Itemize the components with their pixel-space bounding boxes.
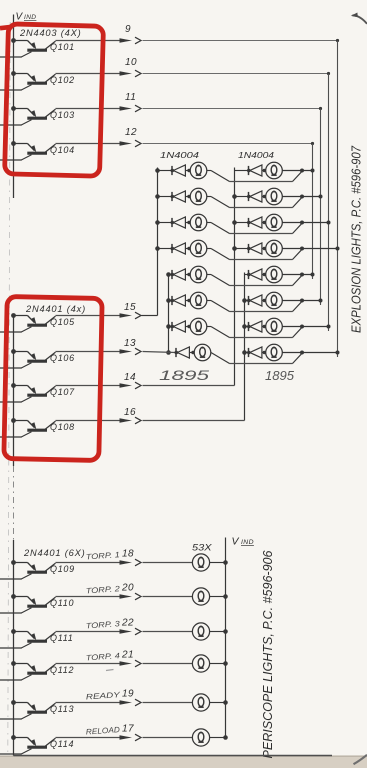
lamp 1895 row 3 right (266, 214, 283, 231)
Q107 base wire (0, 401, 22, 403)
junction node (232, 246, 237, 251)
wire row 6 right (245, 300, 249, 302)
diode 1N4004 row 1 right (247, 165, 262, 176)
junction node (319, 299, 323, 303)
Q104 base wire (0, 159, 22, 161)
svg-text:18: 18 (122, 549, 134, 560)
svg-text:10: 10 (125, 57, 137, 68)
svg-text:Q109: Q109 (50, 564, 75, 574)
junction node (311, 273, 315, 277)
svg-text:16: 16 (124, 407, 136, 418)
lamp 53X TORP. 4 (192, 655, 209, 672)
svg-text:19: 19 (122, 689, 134, 700)
wire row 5 to net vertical (282, 274, 312, 276)
svg-text:53X: 53X (192, 543, 213, 553)
junction node (155, 220, 160, 225)
diode 1N4004 row 4 right (247, 243, 262, 254)
junction node (223, 629, 228, 634)
wire net 9 vertical (337, 41, 339, 358)
lamp 1895 row 7 left (190, 318, 207, 335)
column bus wire (net 15) (157, 168, 159, 316)
Q103 base wire (0, 124, 22, 126)
transistor Q113 (11, 700, 55, 719)
svg-text:1895: 1895 (159, 367, 209, 383)
wire row 1 left (158, 170, 173, 172)
diode 1N4004 row 1 left (171, 165, 186, 176)
svg-text:11: 11 (125, 92, 136, 103)
diode 1N4004 row 5 left (171, 269, 186, 280)
Q112 base wire (0, 679, 22, 681)
svg-text:PERISCOPE LIGHTS, P.C. #596-90: PERISCOPE LIGHTS, P.C. #596-906 (260, 550, 275, 759)
wire lamp to V IND bus (210, 663, 226, 665)
transistor Q107 (11, 383, 55, 402)
junction node (166, 324, 171, 329)
diode 1N4004 row 3 right (247, 217, 262, 228)
wire row 4 right (235, 248, 249, 250)
junction node (223, 700, 228, 705)
junction node (242, 298, 247, 303)
junction node (155, 194, 160, 199)
transistor Q108 (11, 418, 55, 437)
wire row 2 right (235, 196, 249, 198)
column bus wire (net 16) (244, 273, 246, 421)
middle rail wire (13, 314, 15, 466)
wire net 9 to lamp matrix column (143, 40, 338, 42)
wire row 2 left return (207, 197, 302, 208)
junction node (327, 325, 331, 329)
wire row 7 to net vertical (282, 326, 328, 328)
wire net 12 vertical (312, 144, 314, 280)
Q113 base wire (0, 718, 22, 720)
column bus wire (net 13) (168, 273, 170, 353)
svg-text:Q112: Q112 (50, 665, 74, 675)
column bus wire (net 14) (234, 168, 236, 386)
Q101 base wire (0, 56, 22, 58)
junction node (223, 661, 228, 666)
wire lamp to V IND bus (210, 737, 226, 739)
wire net 11 vertical (320, 109, 322, 306)
wire to lamp TORP. 1 (143, 562, 193, 564)
svg-text:12: 12 (125, 127, 137, 138)
lamp 1895 row 5 right (266, 266, 283, 283)
pen stroke bottom right (354, 755, 367, 764)
junction node (166, 272, 171, 277)
Q111 base wire (0, 647, 22, 649)
junction node (300, 195, 304, 199)
wire lamp to V IND bus (210, 562, 226, 564)
wire to lamp TORP. 3 (143, 631, 193, 633)
svg-text:14: 14 (124, 372, 136, 383)
svg-text:Q113: Q113 (50, 704, 74, 714)
lamp 1895 row 6 left (190, 292, 207, 309)
lamp 53X TORP. 3 (192, 623, 209, 640)
lamp 53X TORP. 1 (192, 554, 209, 571)
wire to lamp RELOAD (143, 737, 193, 739)
wire lamp to V IND bus (210, 631, 226, 633)
transistor Q102 (11, 71, 55, 90)
svg-text:Q104: Q104 (50, 145, 75, 155)
pen arrow mark top right (351, 13, 367, 24)
lamp 53X READY (192, 694, 209, 711)
wire row 4 left (158, 248, 173, 250)
diode 1N4004 row 7 right (247, 321, 262, 332)
junction node (166, 298, 171, 303)
junction node (300, 325, 304, 329)
lamp 1895 row 5 left (190, 266, 207, 283)
Q110 base wire (0, 612, 22, 614)
wire to lamp TORP. 4 (143, 663, 193, 665)
junction node (300, 351, 304, 355)
bottom edge wire/border (14, 755, 333, 757)
junction node (300, 273, 304, 277)
lamp 1895 row 8 left (194, 344, 211, 361)
wire row 3 to net vertical (282, 222, 328, 224)
svg-text:20: 20 (121, 583, 134, 594)
junction node (232, 220, 237, 225)
junction node (327, 221, 331, 225)
svg-text:V: V (232, 536, 240, 548)
lamp 53X TORP. 2 (192, 588, 209, 605)
lamp 1895 row 1 left (190, 162, 207, 179)
wire row 6 left return (207, 301, 302, 312)
wire row 1 right (235, 170, 249, 172)
wire lamp to V IND bus (210, 702, 226, 704)
junction node (242, 324, 247, 329)
wire row 4 to net vertical (282, 248, 337, 250)
wire row 7 left return (207, 327, 302, 338)
lamp 1895 row 2 left (190, 188, 207, 205)
page fold line (8, 22, 10, 754)
junction node (336, 247, 340, 251)
svg-text:2N4401 (4x): 2N4401 (4x) (25, 304, 86, 314)
junction node (155, 168, 160, 173)
wire row 2 left (158, 196, 173, 198)
svg-text:2N4401 (6X): 2N4401 (6X) (23, 548, 86, 558)
junction node (336, 351, 340, 355)
svg-text:1N4004: 1N4004 (238, 151, 275, 160)
junction node (311, 169, 315, 173)
wire net 13 continuation (143, 352, 177, 353)
junction node (319, 195, 323, 199)
svg-text:Q111: Q111 (50, 633, 73, 643)
svg-text:13: 13 (124, 338, 136, 349)
lamp 1895 row 8 right (266, 344, 283, 361)
svg-text:Q103: Q103 (50, 110, 75, 120)
svg-text:1N4004: 1N4004 (160, 151, 200, 160)
lamp 1895 row 2 right (266, 188, 283, 205)
diode 1N4004 row 2 left (171, 191, 186, 202)
transistor Q110 (11, 594, 55, 613)
transistor Q112 (11, 661, 55, 680)
transistor Q106 (11, 349, 55, 368)
transistor Q114 (11, 735, 55, 754)
wire row 3 left return (207, 223, 302, 234)
svg-text:IND: IND (241, 539, 254, 546)
bottom rail wire (13, 540, 15, 756)
wire to lamp TORP. 2 (143, 596, 193, 598)
junction node (300, 299, 304, 303)
svg-text:22: 22 (121, 618, 134, 629)
wire net 12 to lamp matrix column (143, 143, 313, 145)
wire lamp to V IND bus (210, 596, 226, 598)
lamp 1895 row 4 right (266, 240, 283, 257)
lamp 1895 row 1 right (266, 162, 283, 179)
svg-text:1895: 1895 (265, 369, 294, 383)
junction node (232, 194, 237, 199)
lamp 1895 row 7 right (266, 318, 283, 335)
wire row 8 left return (211, 353, 302, 364)
diode 1N4004 row 8 right (247, 347, 262, 358)
junction node (155, 246, 160, 251)
junction node (166, 350, 171, 355)
svg-text:Q107: Q107 (50, 387, 75, 397)
diode 1N4004 row 5 right (247, 269, 262, 280)
transistor Q101 (11, 38, 55, 57)
diode 1N4004 row 6 left (171, 295, 186, 306)
annotation red box around Q101-Q104 (0, 27, 12, 28)
wire row 6 to net vertical (282, 300, 320, 302)
diode 1N4004 row 8 left (175, 347, 190, 358)
wire row 7 right (245, 326, 249, 328)
wire row 5 left (169, 274, 173, 276)
wire row 4 left return (207, 249, 302, 260)
junction node (223, 594, 228, 599)
diode 1N4004 row 3 left (171, 217, 186, 228)
lamp 53X RELOAD (192, 729, 209, 746)
svg-text:Q105: Q105 (50, 317, 75, 327)
wire row 5 right (245, 274, 249, 276)
smudge (106, 670, 114, 671)
Q106 base wire (0, 367, 22, 369)
wire net 11 to lamp matrix column (143, 108, 321, 110)
transistor Q103 (11, 106, 55, 125)
transistor Q109 (11, 560, 55, 579)
diode 1N4004 row 7 left (171, 321, 186, 332)
junction node (242, 350, 247, 355)
svg-text:EXPLOSION LIGHTS, P.C. #596-90: EXPLOSION LIGHTS, P.C. #596-907 (349, 145, 364, 333)
svg-text:Q108: Q108 (50, 422, 75, 432)
wire row 3 right (235, 222, 249, 224)
svg-text:Q101: Q101 (50, 42, 75, 52)
wire row 3 left (158, 222, 173, 224)
svg-text:IND: IND (24, 14, 36, 21)
diode 1N4004 row 6 right (247, 295, 262, 306)
svg-text:9: 9 (125, 24, 131, 35)
Q102 base wire (0, 89, 22, 91)
transistor Q111 (11, 629, 55, 648)
diode 1N4004 row 2 right (247, 191, 262, 202)
transistor Q104 (11, 141, 55, 160)
wire row 1 to net vertical (282, 170, 312, 172)
Q114 base wire (0, 753, 22, 755)
junction node (223, 735, 228, 740)
svg-text:21: 21 (121, 650, 134, 661)
svg-text:Q102: Q102 (50, 75, 75, 85)
svg-text:2N4403 (4X): 2N4403 (4X) (19, 28, 82, 38)
wire net 10 to lamp matrix column (143, 73, 329, 75)
wire row 1 left return (207, 171, 302, 182)
Q108 base wire (0, 436, 22, 438)
junction node (223, 560, 228, 565)
Q105 base wire (0, 331, 22, 333)
wire row 8 right (245, 352, 249, 354)
junction node (300, 169, 304, 173)
svg-text:Q106: Q106 (50, 353, 75, 363)
junction node (300, 221, 304, 225)
wire row 2 to net vertical (282, 196, 320, 198)
svg-text:17: 17 (122, 724, 134, 735)
svg-text:15: 15 (124, 302, 136, 313)
annotation red box around Q105-Q108 (4, 297, 102, 461)
diode 1N4004 row 4 left (171, 243, 186, 254)
Q109 base wire (0, 578, 22, 580)
svg-text:Q110: Q110 (50, 598, 74, 608)
wire net 10 vertical (328, 74, 330, 332)
wire to lamp READY (143, 702, 193, 704)
junction node (300, 247, 304, 251)
lamp 1895 row 4 left (190, 240, 207, 257)
svg-text:Q114: Q114 (50, 739, 74, 749)
lamp 1895 row 6 right (266, 292, 283, 309)
wire row 8 to net vertical (282, 352, 337, 354)
wire row 6 left (169, 300, 173, 302)
lamp 1895 row 3 left (190, 214, 207, 231)
wire row 5 left return (207, 275, 302, 286)
transistor Q105 (11, 313, 55, 332)
wire row 7 left (169, 326, 173, 328)
